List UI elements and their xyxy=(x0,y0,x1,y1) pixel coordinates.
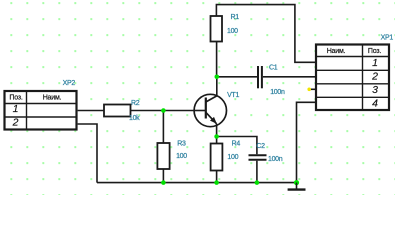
svg-text:C2: C2 xyxy=(256,143,265,150)
resistor R1 xyxy=(211,16,223,42)
wire: C1 right plate to XP1 row2 xyxy=(263,76,315,78)
svg-text:100n: 100n xyxy=(270,89,285,96)
svg-text:100: 100 xyxy=(227,28,238,35)
resistor R4 xyxy=(211,144,223,171)
svg-text:3: 3 xyxy=(372,84,378,96)
wire: XP2 pin1 to R2 xyxy=(78,110,104,112)
wire: R2 to transistor base xyxy=(131,110,195,112)
svg-text:1: 1 xyxy=(372,57,378,69)
connector XP2 table xyxy=(5,91,77,130)
svg-text:Наим.: Наим. xyxy=(327,48,346,55)
svg-text:R2: R2 xyxy=(131,100,140,107)
transistor VT1 xyxy=(194,94,226,126)
wire: rail up to XP1 row4 xyxy=(297,102,316,182)
svg-text:100n: 100n xyxy=(268,156,283,163)
svg-text:VT1: VT1 xyxy=(227,92,239,99)
junction node R4/rail xyxy=(214,180,219,185)
wire: R3 bottom to ground rail xyxy=(162,169,164,183)
junction node C2/rail xyxy=(255,180,260,185)
junction node at R2/base/R3 xyxy=(161,108,166,113)
svg-text:R1: R1 xyxy=(231,14,240,21)
no-connect stub into XP1 row3 xyxy=(307,88,315,92)
wire: R1 bottom to collector junction xyxy=(216,42,218,77)
wire: collector lead up xyxy=(216,77,218,96)
svg-text:Наим.: Наим. xyxy=(43,94,62,101)
svg-text:100: 100 xyxy=(176,153,187,160)
capacitor C1 xyxy=(258,66,262,88)
wire: emitter lead down xyxy=(216,124,218,137)
svg-text:1: 1 xyxy=(13,103,19,115)
svg-text:4: 4 xyxy=(372,97,378,109)
svg-text:2: 2 xyxy=(12,117,19,129)
svg-text:Поз.: Поз. xyxy=(368,48,381,55)
wire: C2 bottom to ground rail xyxy=(256,161,258,183)
junction node at R1/C1/collector xyxy=(215,75,220,80)
junction node at ground xyxy=(294,180,299,185)
wire: R4 bottom to ground rail xyxy=(216,171,218,183)
svg-text:100: 100 xyxy=(227,154,238,161)
wire: emitter junction to C2 top xyxy=(217,137,257,155)
svg-text:XP2: XP2 xyxy=(63,80,76,87)
ground symbol xyxy=(288,183,306,190)
svg-text:R4: R4 xyxy=(232,141,241,148)
capacitor C2 xyxy=(249,155,267,160)
svg-text:R3: R3 xyxy=(177,141,186,148)
wire: base junction down to R3 xyxy=(162,111,164,144)
resistor R2 xyxy=(104,105,131,117)
wire: emitter junction to R4 top xyxy=(216,137,218,144)
junction node R3/rail xyxy=(161,180,166,185)
connector XP1 table xyxy=(316,45,389,111)
svg-text:C1: C1 xyxy=(269,64,278,71)
svg-text:XP1: XP1 xyxy=(381,35,394,42)
wire: ground rail xyxy=(97,182,297,184)
wire: top rail from R1 top to XP1 row1 drop xyxy=(216,5,315,63)
svg-text:Поз.: Поз. xyxy=(9,94,22,101)
wire: XP2 pin2 down to ground rail xyxy=(78,124,97,183)
resistor R3 xyxy=(157,143,169,169)
svg-text:10k: 10k xyxy=(129,115,140,122)
junction node at emitter/R4/C2 xyxy=(214,134,219,139)
wire: collector junction to C1 left plate xyxy=(217,76,257,78)
svg-text:2: 2 xyxy=(371,71,378,83)
